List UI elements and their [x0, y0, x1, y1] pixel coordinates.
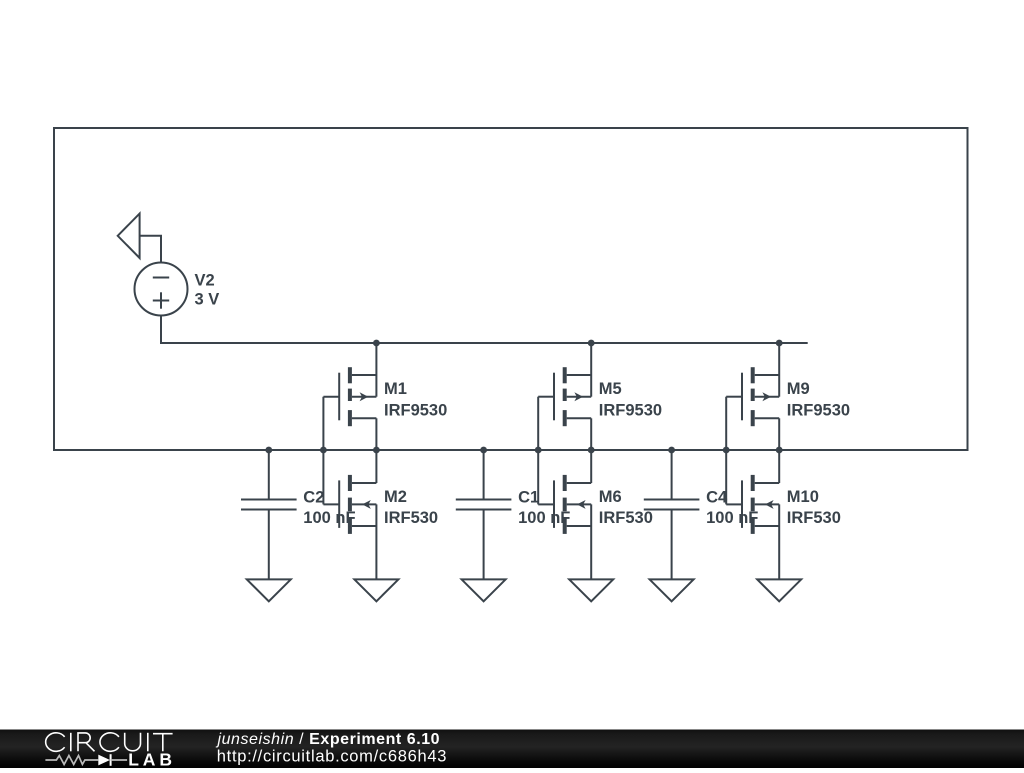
- wire: outer loop right edge: [967, 127, 969, 450]
- wire: outer loop left edge: [53, 127, 55, 450]
- wire: M1 gate to output rail: [322, 397, 324, 450]
- capacitor C1: [483, 450, 485, 499]
- junction: M5 source at +3V rail: [588, 340, 595, 347]
- junction: C1 at output rail: [480, 447, 487, 454]
- ground below M2: [354, 579, 398, 601]
- ground below M6: [569, 579, 613, 601]
- ground below C1: [462, 579, 506, 601]
- svg-text:http://circuitlab.com/c686h43: http://circuitlab.com/c686h43: [217, 747, 447, 765]
- transistor M10 (NMOS IRF530): [778, 450, 780, 483]
- ground below C4: [650, 579, 694, 601]
- wire: M10 gate to output rail: [725, 450, 727, 504]
- junction: gates at output rail: [320, 447, 327, 454]
- junction: C2 at output rail: [265, 447, 272, 454]
- svg-text:M6: M6: [599, 488, 622, 506]
- svg-text:IRF9530: IRF9530: [384, 402, 447, 420]
- voltage source V2: [135, 263, 188, 316]
- svg-text:IRF530: IRF530: [787, 509, 841, 527]
- junction: C4 at output rail: [668, 447, 675, 454]
- capacitor C2: [268, 450, 270, 499]
- svg-text:M2: M2: [384, 488, 407, 506]
- ground below C2: [247, 579, 291, 601]
- ground below M10: [757, 579, 801, 601]
- svg-text:V2: V2: [195, 272, 215, 290]
- svg-text:M1: M1: [384, 380, 407, 398]
- svg-text:LAB: LAB: [128, 749, 176, 768]
- wire: +3V supply rail: [161, 342, 808, 344]
- transistor M2 (NMOS IRF530): [375, 450, 377, 483]
- transistor M1 (PMOS IRF9530): [375, 343, 377, 397]
- junction: M1 source at +3V rail: [373, 340, 380, 347]
- wire: outer loop top edge: [54, 127, 968, 129]
- transistor M6 (NMOS IRF530): [590, 450, 592, 483]
- svg-text:IRF9530: IRF9530: [787, 402, 850, 420]
- svg-text:100 nF: 100 nF: [518, 509, 570, 527]
- svg-text:C1: C1: [518, 488, 539, 506]
- wire: V2 bottom to supply rail: [160, 316, 162, 345]
- svg-text:IRF9530: IRF9530: [599, 402, 662, 420]
- svg-text:junseishin / Experiment 6.10: junseishin / Experiment 6.10: [216, 731, 441, 748]
- wire: M5 gate to output rail: [537, 397, 539, 450]
- junction: drains at output rail: [776, 447, 783, 454]
- junction: drains at output rail: [373, 447, 380, 454]
- transistor M9 (PMOS IRF9530): [778, 343, 780, 397]
- wire: M9 gate to output rail: [725, 397, 727, 450]
- svg-text:C2: C2: [303, 488, 324, 506]
- wire: output rail (bottom edge of loop): [53, 449, 969, 451]
- CircuitLab logo: CIRCUIT (drawn letters): [46, 733, 173, 752]
- capacitor C4: [671, 450, 673, 499]
- svg-text:M9: M9: [787, 380, 810, 398]
- svg-text:M10: M10: [787, 488, 819, 506]
- net flag on V2 positive terminal: [118, 214, 140, 258]
- wire: flag to V2 top: [140, 236, 161, 264]
- junction: drains at output rail: [588, 447, 595, 454]
- svg-text:100 nF: 100 nF: [706, 509, 758, 527]
- transistor M5 (PMOS IRF9530): [590, 343, 592, 397]
- svg-text:IRF530: IRF530: [599, 509, 653, 527]
- wire: M6 gate to output rail: [537, 450, 539, 504]
- svg-text:100 nF: 100 nF: [303, 509, 355, 527]
- junction: gates at output rail: [535, 447, 542, 454]
- wire: M2 gate to output rail: [322, 450, 324, 504]
- svg-text:M5: M5: [599, 380, 622, 398]
- junction: M9 source at +3V rail: [776, 340, 783, 347]
- svg-text:C4: C4: [706, 488, 728, 506]
- footer bar: [0, 730, 1024, 769]
- CircuitLab logo: resistor-diode squiggle: [45, 756, 98, 765]
- junction: gates at output rail: [723, 447, 730, 454]
- svg-text:3 V: 3 V: [195, 291, 220, 309]
- svg-text:IRF530: IRF530: [384, 509, 438, 527]
